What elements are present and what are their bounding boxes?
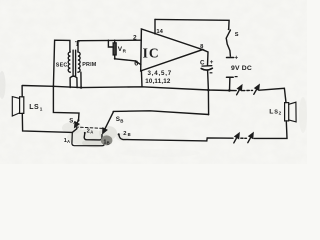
node output pin 8 <box>202 49 204 51</box>
transformer T primary winding <box>78 52 80 72</box>
wire bottom right to LS2 <box>254 121 287 138</box>
svg-text:9V DC: 9V DC <box>231 65 252 72</box>
wire 2B to LS2 bottom long wire <box>119 135 233 141</box>
node SA pole <box>77 119 79 121</box>
svg-text:1: 1 <box>40 107 43 112</box>
wire rail right section to LS2 top <box>260 88 287 102</box>
wire pin6 input from VR bottom <box>115 59 141 65</box>
wire pin2 input from transformer PRIM <box>78 39 141 42</box>
node VR bottom junction <box>114 58 116 60</box>
svg-text:B: B <box>120 118 123 123</box>
speaker LS1 cone <box>12 97 19 116</box>
wire LS1 bottom lead to switch contact 1A <box>22 113 76 132</box>
node pin6 wire dot <box>135 60 137 62</box>
speaker LS1 frame <box>20 97 24 114</box>
svg-text:B: B <box>107 141 110 146</box>
node primary-rail junction <box>80 86 82 88</box>
wire ground rail left section <box>23 86 237 91</box>
scan smudges (decorative) <box>0 71 307 157</box>
wire SA feed from rail <box>53 86 79 120</box>
svg-text:S: S <box>235 32 239 38</box>
svg-text:10,11,12: 10,11,12 <box>145 78 171 85</box>
potentiometer VR body <box>113 43 116 55</box>
transformer T secondary winding <box>68 52 70 72</box>
node pin14 on triangle <box>154 33 156 35</box>
wire 2A to 1B inner loop <box>84 133 102 140</box>
svg-text:T: T <box>75 40 80 48</box>
svg-text:C: C <box>200 59 205 66</box>
node SEC lead rail junction <box>52 85 54 87</box>
transformer T primary top lead <box>77 41 79 52</box>
wire switch S to battery plus <box>226 39 230 57</box>
speaker LS2 frame <box>285 103 289 121</box>
svg-text:6: 6 <box>134 58 138 67</box>
break mark rail 1 <box>237 87 241 95</box>
svg-text:2: 2 <box>123 131 126 137</box>
svg-text:S: S <box>274 109 278 115</box>
speaker LS2 cone <box>289 102 296 122</box>
wire cap bottom through rail to SB feed <box>208 71 209 115</box>
svg-text:+: + <box>210 59 214 66</box>
svg-text:2: 2 <box>133 35 137 42</box>
wire bottom dashed between break marks <box>241 137 247 139</box>
op-amp IC triangle <box>141 29 203 71</box>
svg-text:SEC: SEC <box>56 62 68 68</box>
wire 1A to 1B outer loop <box>72 133 105 146</box>
wire SB feed from cap bottom <box>113 111 208 115</box>
node switch S top contact <box>228 28 230 30</box>
svg-text:LS: LS <box>29 104 39 111</box>
svg-text:PRIM: PRIM <box>82 62 97 68</box>
svg-text:A: A <box>67 139 70 144</box>
svg-text:14: 14 <box>156 29 163 35</box>
label cap minus <box>210 72 213 74</box>
wire top rail pin14 to switch S <box>155 19 229 28</box>
wire VR top stub <box>114 40 116 43</box>
node contact 1A <box>76 128 78 130</box>
switch SB lever <box>104 112 114 132</box>
break mark rail 2 <box>254 87 258 95</box>
svg-text:A: A <box>73 120 76 125</box>
noise under ink (decorative) <box>0 0 307 164</box>
switch SA lever <box>76 121 79 126</box>
wire VR bottom stub <box>114 55 116 59</box>
capacitor C top plate <box>202 65 212 67</box>
transformer T core <box>72 50 74 76</box>
wire secondary bottom hook to rail <box>70 76 77 87</box>
switch SB blob contact 1B <box>101 135 113 145</box>
break mark bottom 2 <box>248 135 252 143</box>
svg-text:B: B <box>128 132 131 137</box>
node cap rail crossing <box>207 89 210 92</box>
svg-text:3,4,5,7: 3,4,5,7 <box>148 70 173 77</box>
svg-text:IC: IC <box>143 45 160 60</box>
transformer T secondary top lead <box>53 40 70 86</box>
node contact 2B <box>118 133 120 135</box>
battery BT1 9V plates <box>227 57 234 59</box>
wire IC ground pins to rail <box>140 71 143 87</box>
svg-text:+: + <box>234 54 238 61</box>
wire primary bottom lead <box>80 72 82 88</box>
wire LS1 top lead to rail <box>21 86 23 97</box>
wire VR wiper arm <box>108 40 113 47</box>
label battery minus <box>235 76 238 78</box>
node contact 2A <box>84 132 86 134</box>
capacitor C bottom plate <box>201 68 212 70</box>
break mark bottom 1 <box>234 135 238 143</box>
switch S lever <box>226 30 230 38</box>
svg-text:2: 2 <box>279 111 282 116</box>
gang dashed link SA-SB <box>76 127 105 129</box>
svg-text:L: L <box>269 108 273 115</box>
wire pin14 riser <box>154 19 156 33</box>
node battery-rail junction <box>228 89 231 92</box>
svg-text:A: A <box>90 130 93 135</box>
wire output pin8 to cap <box>203 50 208 65</box>
wire battery minus to ground rail <box>229 77 231 90</box>
wire rail dashed between break marks <box>243 89 253 91</box>
